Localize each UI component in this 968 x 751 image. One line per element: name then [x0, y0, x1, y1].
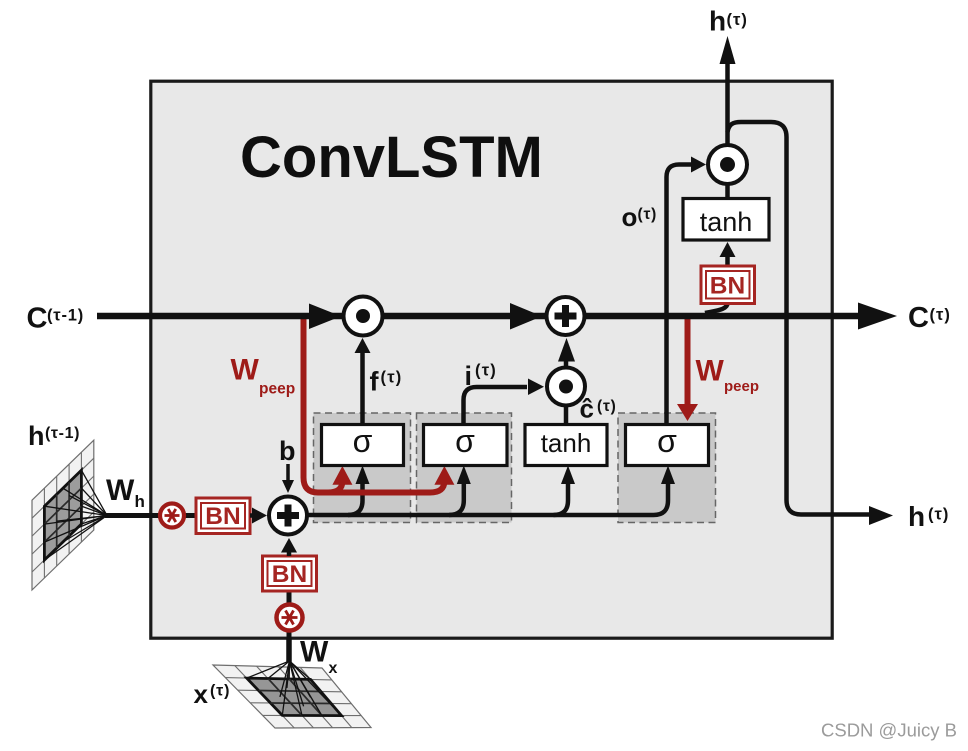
wire f gate to forget multiplier [360, 351, 365, 425]
arrowhead feed into sigma1 [356, 466, 370, 485]
h grid fan-in lines [44, 470, 107, 560]
svg-text:(τ): (τ) [475, 362, 497, 380]
label x input [194, 679, 231, 709]
wire gate feed line from adder node to all gates [307, 480, 668, 515]
svg-text:(τ-1): (τ-1) [45, 425, 80, 442]
svg-text:BN: BN [272, 561, 307, 588]
forget multiplier node [344, 297, 383, 336]
svg-text:x: x [329, 660, 338, 677]
svg-text:h: h [908, 501, 925, 532]
dashed region D4 around gate sigma4 [618, 413, 716, 523]
wire BN x to gate adder [287, 551, 292, 556]
wire x path input vertical line [287, 592, 292, 660]
svg-text:(τ): (τ) [597, 398, 617, 415]
gate adder node with bias [269, 497, 307, 535]
gate sigma4 box [626, 423, 709, 466]
gate sigma1 box [322, 423, 404, 466]
svg-text:h: h [28, 421, 45, 451]
wire hidden state up from output multiplier to h out [725, 62, 730, 144]
arrowhead into gate adder left [252, 508, 267, 524]
dashed region D1 around gate sigma1 [314, 413, 411, 523]
wire o gate output to output multiplier [667, 165, 693, 426]
label W_h [106, 474, 145, 511]
svg-text:o: o [622, 202, 638, 232]
arrowhead cell state into adder [510, 303, 542, 330]
wire W_peep red arrow down into sigma4 [685, 318, 691, 406]
svg-text:W: W [300, 636, 329, 669]
svg-text:peep: peep [259, 381, 295, 398]
svg-text:i: i [465, 361, 473, 391]
top tanh box [683, 199, 769, 241]
arrowhead f into forget multiplier [355, 338, 371, 353]
red arrowhead into sigma4 top [677, 404, 698, 421]
x grid fan-in lines [247, 661, 342, 716]
arrowhead i into candidate multiplier [528, 379, 544, 396]
svg-text:W: W [231, 354, 260, 387]
svg-text:(τ): (τ) [210, 683, 230, 700]
svg-text:BN: BN [710, 273, 745, 300]
arrowhead h out right [869, 506, 893, 525]
svg-text:C: C [908, 302, 929, 334]
arrowhead h out top [720, 36, 736, 64]
x input grid [213, 665, 371, 728]
label W_peep right [696, 355, 760, 396]
label C out [908, 302, 951, 334]
arrowhead feed into sigma2 [457, 466, 471, 485]
candidate multiplier node [547, 368, 585, 406]
wire cell state to BN top curve [705, 303, 728, 313]
svg-text:W: W [696, 355, 725, 388]
svg-text:b: b [279, 436, 296, 466]
red arrowhead into sigma2 [434, 466, 454, 485]
svg-text:C: C [27, 303, 48, 335]
svg-text:(τ): (τ) [930, 306, 951, 324]
wire cell state thick line [97, 313, 860, 320]
gate tanh box [525, 425, 607, 466]
wire i gate to candidate multiplier [464, 387, 528, 425]
svg-text:tanh: tanh [700, 207, 753, 237]
label C previous [27, 303, 85, 335]
svg-text:(τ): (τ) [638, 206, 658, 223]
dashed region D2 around gate sigma2 [417, 413, 512, 523]
label c candidate [580, 394, 617, 424]
arrowhead o into output multiplier [691, 157, 706, 173]
svg-text:σ: σ [657, 423, 677, 459]
label i gate output [465, 361, 497, 391]
wire top tanh to output multiplier [725, 145, 730, 198]
wire b bias arrow into gate adder [286, 464, 290, 481]
gate sigma2 box [424, 423, 508, 466]
h previous grid [32, 440, 94, 590]
arrowhead into gate adder bottom [281, 538, 297, 553]
svg-text:σ: σ [353, 423, 373, 459]
label o gate output [622, 202, 658, 232]
label h previous [28, 421, 80, 451]
cell adder node [547, 297, 585, 335]
arrowhead cell state into forget multiplier [309, 304, 341, 330]
arrowhead feed into sigma4 [661, 466, 675, 485]
output multiplier node [708, 145, 747, 184]
label h out top [709, 6, 748, 37]
red arrowhead into sigma1 [332, 466, 352, 485]
BN box on h input [196, 498, 250, 534]
BN box on cell state to tanh [701, 266, 755, 304]
svg-text:x: x [194, 679, 209, 709]
ConvLSTM cell boundary box [151, 81, 832, 638]
svg-text:peep: peep [724, 378, 759, 395]
arrowhead b into gate adder [282, 480, 294, 493]
h grid receptive field block [44, 470, 81, 560]
wire x input below box [286, 638, 292, 662]
svg-text:ĉ: ĉ [580, 394, 594, 424]
wire W_peep red line from cell state to sigma1 and sigma2 [304, 318, 445, 493]
conv operator on x input [277, 605, 303, 631]
svg-text:(τ): (τ) [727, 11, 748, 29]
label W_x [300, 636, 338, 678]
svg-text:BN: BN [205, 503, 240, 530]
wire h path input line [105, 513, 198, 518]
conv operator on h input [160, 504, 184, 528]
label W_peep left [231, 354, 296, 398]
label h out right [908, 501, 949, 532]
wire BN top to tanh top arrow [725, 256, 730, 266]
arrowhead feed into tanh gate [561, 466, 575, 485]
arrowhead into top tanh [720, 242, 736, 257]
svg-text:h: h [709, 6, 726, 37]
svg-text:f: f [370, 367, 380, 397]
x grid receptive field block [247, 678, 342, 716]
svg-text:(τ): (τ) [381, 369, 403, 387]
svg-text:W: W [106, 474, 135, 507]
svg-text:(τ-1): (τ-1) [47, 307, 84, 325]
svg-text:(τ): (τ) [928, 506, 949, 524]
wire hidden state branch to right side exit [728, 122, 870, 515]
svg-text:tanh: tanh [541, 428, 592, 458]
wire BN to gate adder [250, 513, 255, 518]
wire candidate multiplier to cell adder arrow [564, 356, 569, 366]
svg-text:ConvLSTM: ConvLSTM [240, 125, 543, 190]
arrowhead cell state output C [858, 303, 897, 330]
label f gate output [370, 367, 403, 397]
svg-text:CSDN @Juicy B: CSDN @Juicy B [821, 720, 957, 741]
svg-text:h: h [135, 492, 145, 511]
arrowhead into cell adder [558, 338, 575, 362]
BN box on x input [263, 556, 317, 591]
wire tanh gate to candidate multiplier [564, 406, 569, 425]
svg-text:σ: σ [455, 423, 475, 459]
